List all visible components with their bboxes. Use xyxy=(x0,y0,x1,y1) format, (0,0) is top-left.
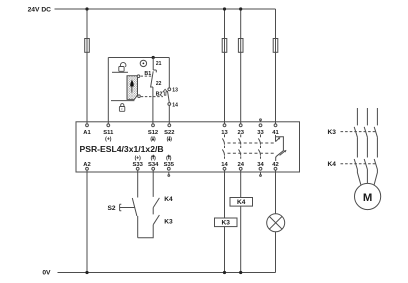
svg-text:(+): (+) xyxy=(135,156,142,162)
door actuator hatched tongue xyxy=(127,76,138,100)
svg-text:S33: S33 xyxy=(133,162,144,168)
terminal 34 stub xyxy=(260,172,262,175)
open padlock icon xyxy=(119,62,126,71)
svg-text:S11: S11 xyxy=(103,130,114,136)
svg-text:): ) xyxy=(154,156,156,162)
svg-text:0V: 0V xyxy=(42,270,51,277)
wire A1 feeder xyxy=(86,9,88,124)
terminal 41 xyxy=(274,124,277,127)
svg-text:S35: S35 xyxy=(164,162,175,168)
wire 41 feeder xyxy=(275,9,277,124)
svg-text:24V DC: 24V DC xyxy=(28,7,52,14)
contact K3 aux xyxy=(153,208,159,225)
arrow down S12 xyxy=(152,136,154,139)
svg-text:14: 14 xyxy=(172,102,178,108)
svg-text:): ) xyxy=(170,156,172,162)
terminal 13 xyxy=(223,124,226,127)
relay contact 33-34 xyxy=(258,135,260,159)
label B2 xyxy=(156,91,163,97)
fuse F1 xyxy=(85,39,90,53)
svg-text:K3: K3 xyxy=(328,129,337,136)
guide bar bottom xyxy=(111,100,134,102)
terminal S34 xyxy=(152,167,155,170)
svg-text:K4: K4 xyxy=(164,196,173,203)
svg-text:42: 42 xyxy=(272,162,278,168)
arrow down S22 xyxy=(168,136,170,139)
fuse F2 xyxy=(222,39,227,53)
svg-text:S22: S22 xyxy=(164,130,174,136)
terminal 33 xyxy=(259,124,262,127)
0V rail xyxy=(58,272,276,274)
terminal S12 xyxy=(152,124,155,127)
linkage dashed row 2 xyxy=(228,152,275,154)
svg-text:B1: B1 xyxy=(144,71,151,77)
svg-text:13: 13 xyxy=(221,130,228,136)
terminal 34 xyxy=(259,167,262,170)
motor feeder L1 xyxy=(354,108,361,185)
guide bar top xyxy=(112,71,128,73)
svg-text:): ) xyxy=(170,137,172,143)
wire 13-branch drop xyxy=(168,58,170,88)
terminal S11 xyxy=(107,124,110,127)
wire K3 coil branch xyxy=(224,170,226,272)
svg-text:A2: A2 xyxy=(83,162,90,168)
actuator link node bottom xyxy=(138,95,141,98)
svg-text:K4: K4 xyxy=(328,161,337,168)
svg-text:33: 33 xyxy=(257,130,264,136)
link B1 dashed xyxy=(141,75,152,77)
node A2 bottom xyxy=(85,271,88,274)
terminal A1 xyxy=(86,124,89,127)
coil K3 xyxy=(215,218,238,227)
pushbutton S2 xyxy=(120,198,138,238)
svg-text:K3: K3 xyxy=(164,218,173,225)
node B1 tap xyxy=(152,56,155,59)
svg-text:13: 13 xyxy=(172,88,178,94)
terminal 23 xyxy=(239,124,242,127)
node top 13 xyxy=(223,7,226,10)
24V DC rail xyxy=(55,8,276,10)
fuse F3 xyxy=(238,39,243,53)
svg-text:34: 34 xyxy=(257,162,264,168)
node top A1 xyxy=(85,7,88,10)
terminal 42 xyxy=(274,167,277,170)
wire K4 coil branch xyxy=(240,170,242,272)
wire A2 drop xyxy=(86,170,88,272)
svg-text:): ) xyxy=(154,137,156,143)
relay contact 23-24 xyxy=(239,135,241,159)
terminal S35 xyxy=(167,167,170,170)
fuse F4 xyxy=(273,39,278,53)
terminal 24 xyxy=(239,167,242,170)
contact B1 21-22 xyxy=(151,58,157,125)
svg-text:S34: S34 xyxy=(148,162,159,168)
actuator cam arrow xyxy=(131,81,134,93)
terminal 33 stub xyxy=(260,121,262,122)
closed padlock icon xyxy=(119,104,124,112)
link K4 dashed xyxy=(341,163,377,165)
svg-text:(+): (+) xyxy=(105,137,112,143)
arrow up S34 xyxy=(152,156,154,159)
svg-text:41: 41 xyxy=(272,130,279,136)
contact B2 13-14 xyxy=(168,88,171,91)
B2 actuate arrow xyxy=(163,89,167,95)
node K3 bottom xyxy=(223,271,226,274)
manual release symbol xyxy=(140,60,146,66)
motor feeder L2 xyxy=(364,108,367,183)
linkage dashed row 1 xyxy=(228,142,275,144)
wire start loop bottom xyxy=(138,225,154,238)
terminal A2 xyxy=(86,167,89,170)
wire 23 feeder xyxy=(240,9,242,124)
svg-text:14: 14 xyxy=(221,162,228,168)
svg-text:K4: K4 xyxy=(237,199,246,206)
svg-text:23: 23 xyxy=(237,130,244,136)
motor feeder L3 xyxy=(374,108,377,185)
actuator link node top xyxy=(137,75,140,78)
safety relay box U1 xyxy=(76,122,300,172)
svg-text:M: M xyxy=(363,192,372,204)
svg-text:S2: S2 xyxy=(108,205,116,212)
node top 23 xyxy=(239,7,242,10)
contact K4 aux xyxy=(153,170,159,207)
terminal S22 xyxy=(168,124,171,127)
wire 13 feeder xyxy=(224,9,226,124)
relay contact 41-42 forced NC xyxy=(276,135,285,161)
svg-text:21: 21 xyxy=(156,61,162,67)
indicator lamp H1 xyxy=(267,214,285,232)
motor M xyxy=(355,183,381,209)
wire S33 drop xyxy=(137,170,139,197)
wire S11 riser xyxy=(107,58,109,125)
node K4 bottom xyxy=(239,271,242,274)
svg-text:B2: B2 xyxy=(156,91,163,97)
svg-text:PSR-ESL4/3x1/1x2/B: PSR-ESL4/3x1/1x2/B xyxy=(80,144,164,154)
relay contact 13-14 xyxy=(222,135,224,159)
wire door-switch top xyxy=(108,57,169,59)
link B2 dashed xyxy=(141,96,163,98)
coil K4 xyxy=(230,198,253,207)
svg-text:S12: S12 xyxy=(148,130,158,136)
svg-text:24: 24 xyxy=(237,162,244,168)
svg-text:22: 22 xyxy=(156,81,162,87)
terminal S33 xyxy=(136,167,139,170)
terminal 14 xyxy=(223,167,226,170)
wire lamp branch xyxy=(275,170,277,272)
terminal S35 stub xyxy=(168,172,170,175)
svg-text:A1: A1 xyxy=(83,130,91,136)
wire S22 drop xyxy=(168,105,170,124)
arrow up S35 xyxy=(168,156,170,159)
svg-text:K3: K3 xyxy=(221,220,230,227)
link K3 dashed xyxy=(341,131,377,133)
